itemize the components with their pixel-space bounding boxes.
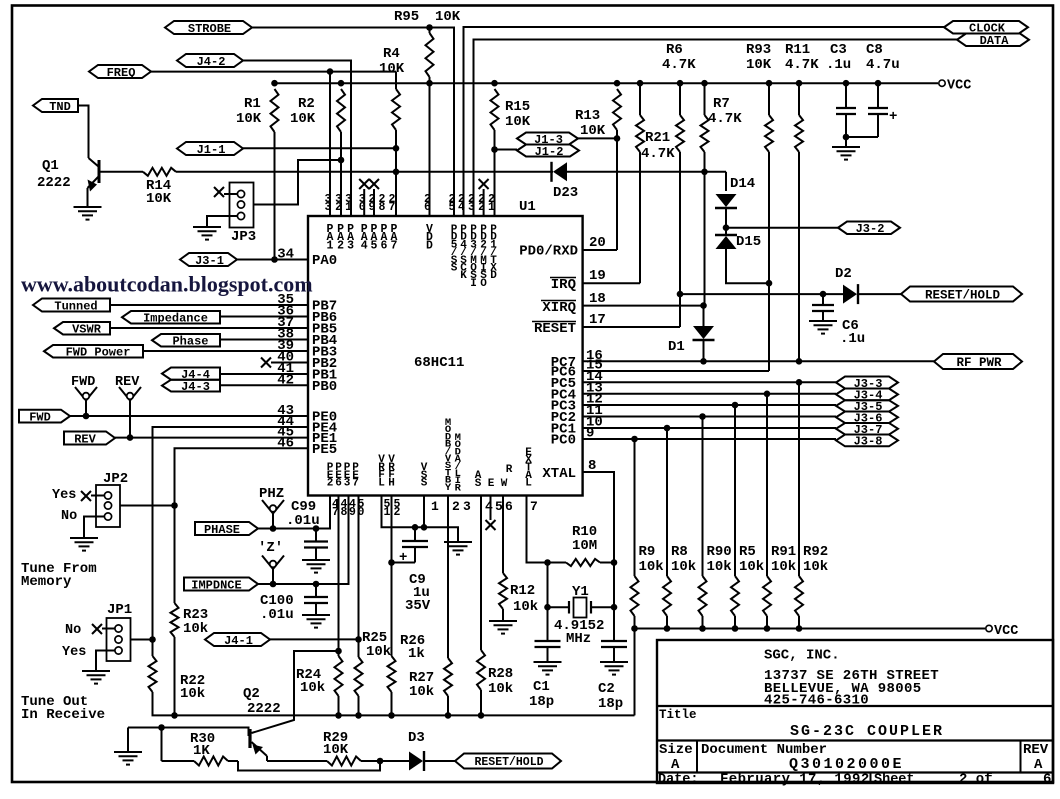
resistor R21	[676, 115, 684, 152]
junction FWD antenna on PE0 line	[83, 413, 90, 420]
junction R23 bottom on bus	[171, 712, 178, 719]
signal flag J1-1	[177, 142, 243, 155]
wire PC5 to J3-3	[583, 381, 836, 383]
wire VRFH column	[391, 496, 393, 656]
resistor R1	[271, 89, 279, 132]
wire J4-1 line to PE7 column	[270, 638, 359, 640]
junction VSS on elbow line	[421, 524, 428, 531]
junction R21 top on VCC bus	[677, 80, 684, 87]
diode D2	[843, 285, 857, 304]
junction C8 top on VCC bus	[875, 80, 882, 87]
capacitor C3	[845, 83, 847, 108]
title block divider 3	[657, 771, 1053, 773]
svg-text:R1: R1	[244, 96, 261, 112]
signal flag J1-3	[517, 133, 578, 145]
svg-text:4.7K: 4.7K	[641, 146, 675, 162]
wire PD0 pin20 stub	[582, 249, 584, 251]
junction R8 on bottom VCC bus	[664, 625, 671, 632]
wire PC7/RF PWR line	[583, 360, 934, 362]
no-connect X at JP3 pin1	[214, 187, 224, 197]
signal flag Phase	[152, 334, 220, 347]
wire R21 column to RESET/HOLD node	[679, 83, 681, 115]
svg-text:20: 20	[589, 235, 606, 251]
svg-text:R6: R6	[666, 42, 683, 58]
ground below JP3	[206, 223, 208, 227]
svg-text:1: 1	[384, 506, 391, 519]
wire PC0 to J3-8	[583, 438, 836, 440]
resistor R92	[795, 576, 803, 616]
wire REV to PE1	[115, 437, 308, 439]
svg-text:O: O	[480, 278, 487, 290]
svg-text:Date:: Date:	[658, 773, 699, 788]
wire J3-2 line	[726, 227, 838, 229]
svg-text:10K: 10K	[435, 9, 461, 25]
svg-text:R13: R13	[575, 108, 600, 124]
junction base line over R30 node	[158, 724, 165, 731]
junction D15 elbow on R93 column	[766, 280, 773, 287]
wire PE4 line and column	[153, 427, 309, 640]
svg-text:4: 4	[361, 239, 368, 252]
junction R8 on J3-7 line	[664, 425, 671, 432]
resistor R93	[765, 115, 773, 152]
svg-text:3: 3	[347, 239, 354, 252]
resistor R10	[566, 559, 600, 566]
svg-text:3: 3	[468, 201, 475, 214]
svg-text:Yes: Yes	[52, 488, 76, 503]
svg-text:Yes: Yes	[62, 645, 86, 660]
ground below MODA	[457, 538, 459, 542]
svg-text:'Z': 'Z'	[258, 540, 283, 556]
wire R9 column	[634, 439, 636, 576]
signal flag PHASE	[195, 522, 258, 535]
junction R7 top on VCC bus	[701, 80, 708, 87]
svg-text:3: 3	[463, 499, 471, 514]
svg-text:D2: D2	[835, 266, 852, 282]
wire D23 cathode to D14 elbow	[552, 171, 553, 173]
wire PC4 to J3-4	[583, 393, 836, 395]
ground below C99	[315, 556, 317, 560]
resistor R25	[355, 657, 363, 696]
signal flag IMPDNCE	[184, 578, 258, 591]
svg-text:R91: R91	[771, 544, 796, 560]
title block divider 1	[657, 705, 1053, 707]
wire R91 column	[766, 394, 768, 576]
antenna Z	[262, 556, 273, 570]
wire FWD to PE0	[70, 415, 308, 417]
resistor R9	[631, 576, 639, 616]
svg-text:7: 7	[352, 478, 359, 490]
svg-text:J1-1: J1-1	[197, 143, 226, 157]
svg-text:10k: 10k	[739, 559, 764, 575]
svg-text:3: 3	[344, 478, 351, 490]
ground below C6	[822, 317, 824, 321]
signal flag RESET/HOLD right	[901, 287, 1022, 302]
junction R93 top on VCC bus	[766, 80, 773, 87]
title block REV col divider	[1020, 741, 1022, 773]
svg-text:C8: C8	[866, 42, 883, 58]
wire PE5 line and column	[175, 448, 309, 505]
wire JP1 pin2 to PE4 column	[131, 639, 153, 641]
svg-text:E: E	[488, 478, 495, 490]
VCC terminal top right	[939, 80, 945, 86]
ground below Q1	[87, 203, 89, 207]
svg-text:4.7K: 4.7K	[662, 57, 696, 73]
junction JP3 wire on pin32 column	[338, 157, 345, 164]
svg-text:REV: REV	[1023, 742, 1049, 758]
wire R25 to bottom bus	[358, 696, 360, 715]
wire R1 column to PA0 line	[274, 132, 276, 260]
signal flag J4-3	[162, 380, 220, 392]
wire R2 column to pin32	[340, 132, 342, 216]
signal flag J3-2	[838, 222, 900, 235]
wire CLOCK to pin24 column	[464, 27, 945, 216]
svg-text:www.aboutcodan.blogspot.com: www.aboutcodan.blogspot.com	[21, 272, 313, 297]
svg-text:R9: R9	[639, 544, 656, 560]
resistor R15	[491, 89, 499, 130]
junction R5 on bottom VCC bus	[732, 625, 739, 632]
wire JP2 pin3 to ground	[84, 517, 104, 535]
svg-text:10k: 10k	[707, 559, 732, 575]
svg-text:2222: 2222	[247, 701, 281, 717]
svg-text:FREQ: FREQ	[107, 66, 136, 80]
svg-text:.01u: .01u	[260, 607, 294, 623]
net VCC top bus	[275, 82, 939, 84]
wire R9 to VCC bus	[634, 616, 636, 629]
wire Phase to PB4	[220, 339, 308, 341]
wire R8 to VCC bus	[666, 616, 668, 629]
svg-text:10K: 10K	[379, 61, 405, 77]
junction R95 top on STROBE line	[426, 24, 433, 31]
svg-text:S: S	[421, 478, 428, 490]
svg-text:PC0: PC0	[551, 433, 576, 449]
svg-text:.1u: .1u	[826, 57, 851, 73]
svg-text:R2: R2	[298, 96, 315, 112]
VCC terminal bottom right	[986, 625, 992, 631]
svg-text:VCC: VCC	[947, 79, 971, 94]
signal flag J3-7	[836, 423, 898, 435]
resistor R22	[149, 656, 157, 692]
wire R12 to ground	[502, 609, 504, 617]
wire R10 leads	[548, 562, 567, 564]
svg-text:4.7K: 4.7K	[785, 57, 819, 73]
svg-text:XIRQ: XIRQ	[542, 300, 576, 316]
svg-text:In Receive: In Receive	[21, 707, 105, 723]
wire R92 to VCC bus	[798, 616, 800, 629]
wire R6 column to IRQ pin19 elbow	[639, 83, 641, 115]
wire D3 to RESET/HOLD flag	[425, 760, 455, 762]
diode D15	[715, 234, 737, 236]
wire R27 to bottom bus	[447, 696, 449, 715]
svg-text:SGC, INC.: SGC, INC.	[764, 648, 840, 664]
svg-text:6: 6	[505, 499, 513, 514]
wire PE7 column	[358, 496, 360, 657]
wire pin25 stub	[453, 210, 455, 216]
svg-text:RESET/HOLD: RESET/HOLD	[474, 756, 543, 769]
wire PC2 to J3-6	[583, 416, 836, 418]
junction R91 on bottom VCC bus	[764, 625, 771, 632]
svg-text:10k: 10k	[488, 681, 513, 697]
antenna FWD	[75, 387, 86, 401]
svg-text:R95: R95	[394, 9, 419, 25]
diode D14	[716, 194, 737, 207]
resistor R8	[663, 576, 671, 616]
junction R29/D3 node	[377, 758, 384, 765]
IC U1 68HC11 body	[308, 216, 583, 496]
svg-text:Size: Size	[659, 742, 693, 758]
wire DATA to pin23 column	[474, 40, 958, 217]
resistor R7	[701, 115, 709, 152]
wire J4-2 to pin31 column	[243, 61, 351, 217]
resistor R29	[327, 757, 361, 766]
jumper JP2	[96, 485, 120, 527]
svg-text:10k: 10k	[183, 621, 208, 637]
capacitor C99	[315, 529, 317, 542]
wire R30 to node	[162, 760, 195, 762]
svg-text:10k: 10k	[513, 599, 538, 615]
junction R92 on bottom VCC bus	[796, 625, 803, 632]
svg-text:1: 1	[431, 499, 439, 514]
wire J1-2 to R15 column	[495, 149, 518, 151]
wire AS column	[480, 496, 482, 650]
svg-text:2: 2	[394, 506, 401, 519]
transistor Q1	[98, 160, 101, 183]
junction R90 on J3-6 line	[699, 413, 706, 420]
junction Y1 left on C1 column	[544, 604, 551, 611]
wire R29 to D3	[361, 760, 409, 762]
wire J4-4 to PB1	[220, 373, 308, 375]
wire D14 to D15	[725, 208, 727, 236]
svg-text:5: 5	[495, 499, 503, 514]
capacitor C6	[822, 294, 824, 305]
svg-text:J3-8: J3-8	[854, 435, 883, 449]
no-connect X on pin 29	[369, 179, 379, 189]
svg-text:2: 2	[452, 499, 460, 514]
signal flag STROBE	[165, 21, 252, 34]
signal flag VSWR	[54, 322, 110, 335]
svg-text:2 of: 2 of	[959, 772, 993, 788]
svg-text:5: 5	[371, 239, 378, 252]
svg-text:R8: R8	[671, 544, 688, 560]
wire R24 to bottom bus	[338, 696, 340, 715]
junction R21 column on RESET/HOLD line	[677, 291, 684, 298]
junction Z antenna on IMPDNCE line	[270, 581, 277, 588]
svg-text:10K: 10K	[505, 114, 531, 130]
capacitor C2	[601, 640, 627, 642]
junction R4 on J1-1 line	[393, 145, 400, 152]
wire MODB column	[447, 496, 449, 658]
wire EXTAL column elbow	[527, 496, 548, 563]
svg-text:Title: Title	[659, 708, 697, 722]
svg-text:RF PWR: RF PWR	[956, 356, 1002, 370]
svg-text:I: I	[470, 278, 477, 290]
svg-text:Y: Y	[445, 482, 452, 494]
wire FWD Power to PB3	[143, 350, 308, 352]
svg-text:10K: 10K	[580, 123, 606, 139]
svg-text:A: A	[1034, 757, 1043, 773]
junction JP1 wire on PE4 column	[149, 636, 156, 643]
svg-text:D1: D1	[668, 339, 685, 355]
junction R90 on bottom VCC bus	[699, 625, 706, 632]
svg-text:K: K	[460, 270, 467, 282]
signal flag FREQ	[89, 65, 151, 78]
svg-text:1K: 1K	[193, 743, 210, 759]
jumper JP3	[230, 183, 254, 228]
svg-text:35V: 35V	[405, 598, 431, 614]
svg-text:U1: U1	[519, 199, 536, 215]
svg-text:68HC11: 68HC11	[414, 355, 464, 371]
wire XIRQ dot to D1 to PC7 line	[703, 306, 705, 326]
wire RESET/HOLD line	[680, 293, 843, 295]
svg-text:R21: R21	[645, 130, 670, 146]
wire R7 column	[704, 83, 706, 115]
resistor R14	[143, 168, 176, 176]
svg-text:FWD: FWD	[29, 410, 51, 424]
svg-text:R15: R15	[505, 99, 530, 115]
junction R1 top on VCC bus	[271, 80, 278, 87]
capacitor C100	[315, 584, 317, 597]
junction PHZ antenna on PHASE line	[270, 525, 277, 532]
svg-text:R4: R4	[383, 46, 400, 62]
svg-text:No: No	[61, 509, 77, 524]
svg-text:D3: D3	[408, 730, 425, 746]
svg-text:A: A	[671, 757, 680, 773]
resistor R2	[337, 89, 345, 132]
no-connect X on PB2 pin 40	[261, 358, 271, 368]
wire R90 column	[702, 417, 704, 577]
svg-text:7: 7	[530, 499, 538, 514]
wire J1-3 to R13 column	[578, 137, 617, 139]
resistor R90	[699, 576, 707, 616]
ground below JP1	[95, 667, 97, 671]
junction Q2 collector on PE6 column	[335, 648, 342, 655]
junction C100 on IMPDNCE line	[313, 581, 320, 588]
wire Tunned to PB7	[110, 304, 308, 306]
svg-text:4.7u: 4.7u	[866, 57, 900, 73]
svg-text:J1-2: J1-2	[535, 145, 564, 159]
wire R5 column	[734, 405, 736, 576]
capacitor C9 polarized	[414, 527, 416, 541]
junction R2 top on VCC bus	[338, 80, 345, 87]
wire RESET pin17 elbow	[583, 326, 680, 328]
svg-text:D15: D15	[736, 234, 761, 250]
svg-text:1: 1	[345, 201, 352, 214]
ground below R12	[502, 617, 504, 621]
svg-text:10k: 10k	[671, 559, 696, 575]
no-connect X at JP2 pin1	[81, 491, 91, 501]
no-connect X below E pin	[490, 496, 492, 520]
signal flag J3-8	[836, 435, 898, 447]
resistor R23	[171, 603, 179, 637]
wire bottom bus riser	[634, 629, 636, 716]
wire JP1 pin3 to ground	[96, 651, 115, 668]
junction R9 on bottom VCC bus	[631, 625, 638, 632]
svg-text:H: H	[388, 477, 395, 489]
no-connect X at JP1 pin1	[92, 624, 102, 634]
svg-text:MHz: MHz	[566, 631, 591, 647]
junction R92 on J3-3 line	[796, 379, 803, 386]
signal flag J4-4	[162, 368, 220, 380]
svg-text:Tunned: Tunned	[54, 299, 97, 313]
wire R8 column	[666, 428, 668, 576]
wire FREQ line	[151, 71, 396, 73]
svg-text:R7: R7	[713, 96, 730, 112]
crystal Y1	[574, 598, 587, 618]
wire J3-1 to PA0	[237, 259, 308, 261]
svg-text:1: 1	[488, 201, 495, 214]
wire VDD pin26 column	[429, 83, 431, 216]
svg-text:PD0/RXD: PD0/RXD	[519, 244, 578, 260]
svg-text:10k: 10k	[639, 559, 664, 575]
diode D1	[693, 326, 714, 339]
signal flag J3-1	[180, 253, 237, 266]
resistor R26	[388, 656, 396, 692]
resistor R13	[613, 89, 621, 130]
title block sheet divider	[870, 773, 872, 784]
junction R15 top on VCC bus	[491, 80, 498, 87]
svg-text:2222: 2222	[37, 175, 71, 191]
diode D3	[409, 752, 423, 771]
wire R15 column to pin21	[494, 130, 496, 216]
svg-text:C1: C1	[533, 679, 550, 695]
svg-text:C3: C3	[830, 42, 847, 58]
svg-text:R: R	[506, 464, 513, 476]
signal flag REV	[64, 432, 115, 445]
junction R13 top on VCC bus	[614, 80, 621, 87]
svg-text:18p: 18p	[529, 694, 554, 710]
svg-text:R: R	[455, 482, 462, 494]
svg-text:PA0: PA0	[312, 253, 337, 269]
junction C3/C8 ground node	[843, 134, 850, 141]
svg-text:IRQ: IRQ	[551, 277, 576, 293]
signal flag Tunned	[33, 299, 110, 312]
resistor R91	[763, 576, 771, 616]
signal flag J3-6	[836, 412, 898, 424]
svg-text:D23: D23	[553, 185, 578, 201]
wire VRFL elbow line	[382, 496, 459, 538]
junction C9 top	[412, 524, 419, 531]
svg-text:10K: 10K	[146, 191, 172, 207]
svg-text:L: L	[378, 477, 385, 489]
svg-text:1: 1	[327, 239, 334, 252]
signal flag J4-2	[177, 54, 243, 67]
title block frame	[657, 640, 1053, 783]
svg-text:RESET/HOLD: RESET/HOLD	[925, 289, 1001, 303]
wire Q1 base line	[100, 171, 143, 173]
signal flag FWD Power	[44, 345, 143, 358]
junction R11 top on VCC bus	[796, 80, 803, 87]
signal flag J3-3	[836, 377, 898, 389]
antenna REV	[119, 387, 130, 401]
no-connect X on pin 30	[359, 179, 369, 189]
wire XIRQ pin18 line	[583, 305, 705, 307]
signal flag J3-4	[836, 389, 898, 401]
svg-text:S: S	[475, 478, 482, 490]
svg-text:6: 6	[381, 239, 388, 252]
junction FREQ/pin33 column	[327, 68, 334, 75]
wire J4-3 to PB0	[220, 384, 308, 386]
svg-text:W: W	[501, 478, 508, 490]
junction R24 on bottom bus	[335, 712, 342, 719]
svg-text:STROBE: STROBE	[188, 22, 231, 36]
svg-text:10K: 10K	[323, 742, 349, 758]
resistor R95	[426, 33, 434, 77]
svg-text:10k: 10k	[300, 680, 325, 696]
junction R6 top on VCC bus	[637, 80, 644, 87]
svg-text:7: 7	[391, 239, 398, 252]
svg-text:.1u: .1u	[840, 331, 865, 347]
svg-text:Phase: Phase	[172, 335, 208, 349]
wire R92 column	[798, 382, 800, 576]
